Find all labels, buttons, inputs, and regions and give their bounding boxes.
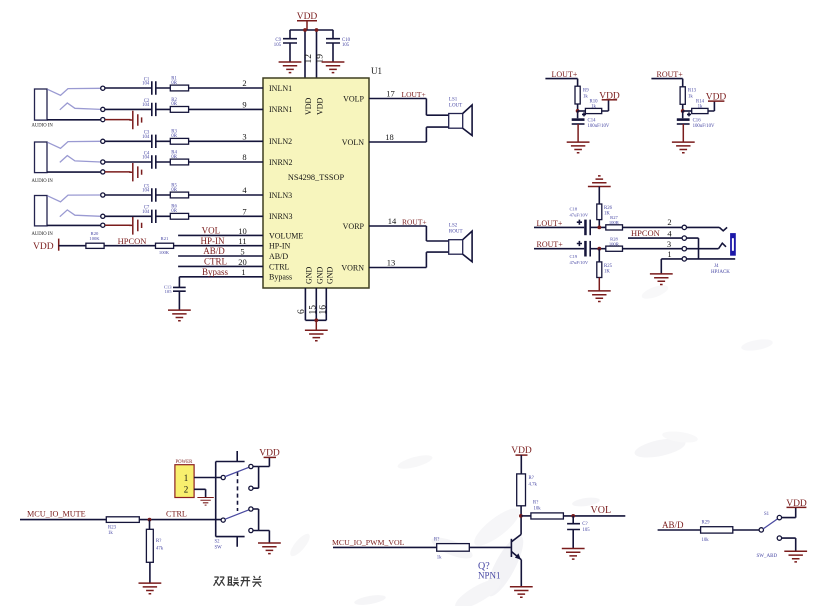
speaker LS2 ROUT [449,224,472,262]
ground (sideways) jack3 [129,216,141,234]
svg-text:12: 12 [304,54,314,64]
ground under C10 [322,62,345,73]
svg-text:1k: 1k [437,556,442,561]
wire pin19 [316,30,318,78]
wire node to R10 [578,110,586,112]
resistor R13 1k [680,87,696,105]
wire GND join [305,319,326,321]
svg-text:R?: R? [434,537,439,542]
wire S1 top to VDD [782,507,796,517]
wire C18 to R27 [590,226,606,228]
svg-text:LS1: LS1 [449,97,458,102]
svg-text:3: 3 [242,131,246,141]
ground under C9 [279,62,302,73]
wire LOUT+ to C18 [534,226,584,228]
wire pin 4 [628,237,682,239]
svg-text:105: 105 [342,43,350,48]
wire R47k to ground [149,562,151,583]
resistor R? 47k [146,520,163,563]
svg-text:104: 104 [142,82,150,87]
wire to ground [315,320,317,330]
svg-text:0R: 0R [171,102,177,107]
svg-text:ROUT+: ROUT+ [657,70,684,79]
node junction collector [519,514,523,518]
resistor R? 10k [531,501,564,519]
svg-text:2: 2 [667,217,671,227]
wire C14 to ground [577,124,579,142]
wire VOL stub to pin 10 [178,234,263,236]
svg-text:0R: 0R [171,134,177,139]
svg-text:VORN: VORN [341,263,364,272]
wire VDD rail [290,29,333,31]
wire R23 to switch [139,519,221,521]
pin circle 4 [682,236,686,240]
wire VORP pin 14 [369,226,449,241]
svg-text:VORP: VORP [343,222,365,231]
ground under R25 [588,291,611,302]
svg-text:0R: 0R [171,81,177,86]
svg-text:AB/D: AB/D [662,520,684,530]
switch S1 contact top [777,515,781,519]
wire ground to R26 [598,187,600,205]
ground at POWER pin2 [197,498,213,506]
switch S2 blade B [225,510,249,519]
svg-text:VOLP: VOLP [343,94,364,103]
wire R1k to base [469,546,510,548]
svg-text:AUDIO IN: AUDIO IN [32,232,54,237]
svg-text:MCU_IO_MUTE: MCU_IO_MUTE [27,509,86,518]
svg-text:AUDIO IN: AUDIO IN [32,124,54,129]
ground under C16 [672,142,695,153]
input line 2: wire, capacitor C2, resistor R2, pin 9 [105,98,263,116]
speaker LS1 LOUT [449,97,472,135]
resistor R29 10k [701,520,733,543]
svg-text:11: 11 [238,236,246,246]
svg-text:100R: 100R [609,220,620,225]
svg-text:10: 10 [238,226,247,236]
wire R10k to VOL [563,515,625,517]
svg-text:HPJACK: HPJACK [711,270,730,275]
svg-text:VDD: VDD [316,97,325,115]
svg-text:R?: R? [529,476,534,481]
svg-text:2: 2 [242,78,246,88]
svg-text:CTRL: CTRL [269,262,290,271]
node junction L [576,109,580,113]
node junction on rail [303,28,307,32]
svg-text:AB/D: AB/D [269,252,288,261]
power port VDD (top) [297,12,318,30]
wire AB/D to R29 [658,529,701,531]
switch S1 blade [763,519,777,529]
svg-text:J4: J4 [714,264,719,269]
svg-text:Bypass: Bypass [202,267,229,277]
svg-text:7: 7 [242,206,246,216]
svg-text:VOLN: VOLN [342,138,364,147]
connector AUDIO IN jack 3 [32,193,105,237]
svg-text:C16: C16 [693,118,702,123]
power port VDD (npn) [511,446,532,456]
svg-text:LOUT+: LOUT+ [552,70,578,79]
power port VDD (R10) [599,91,620,101]
wire GND pin 15 [315,288,317,320]
wire jack3 sleeve to ground [105,224,131,226]
wire AB/D stub to pin 5 [178,255,263,257]
wire R29 to switch S1 [733,529,759,531]
svg-text:1: 1 [184,473,189,483]
connector AUDIO IN jack 1 [32,86,105,129]
svg-text:LOUT+: LOUT+ [402,90,426,99]
svg-text:GND: GND [326,266,335,284]
ground under Q? [510,587,533,598]
ground (sideways) jack1 [129,111,141,129]
svg-text:105: 105 [165,289,173,294]
resistor R? 4.7k [517,474,538,506]
svg-text:MCU_IO_PWM_VOL: MCU_IO_PWM_VOL [332,538,405,547]
resistor R14 1k [692,99,708,113]
resistor R23 1k [106,517,139,536]
pin circle 1 [682,257,686,261]
wire LOUT+ stub [545,79,577,87]
svg-text:C18: C18 [570,207,578,212]
power port VDD (switch) [259,448,280,458]
svg-text:104: 104 [142,135,150,140]
svg-text:4.7k: 4.7k [529,482,538,487]
wire ROUT+ stub [651,79,682,87]
svg-text:104: 104 [142,103,150,108]
ground under U1 [305,330,328,341]
svg-text:U1: U1 [371,66,382,76]
op-amp U1 NS4298_TSSOP body [263,78,369,288]
capacitor C16 100uF/10V [677,111,715,129]
svg-text:INLN2: INLN2 [269,137,292,146]
svg-text:1k: 1k [583,95,588,100]
svg-text:1K: 1K [604,269,610,274]
wire CTRL stub to pin 20 [178,265,263,267]
svg-text:R13: R13 [688,89,697,94]
wire rail B to ground [259,531,270,544]
wire pin2 to tip contact [687,227,728,230]
wire R28 to pin 3 [623,248,683,250]
svg-text:HPCON: HPCON [118,236,147,246]
wire R20 to R21 [104,245,155,247]
wire rail to VDD [259,457,270,466]
capacitor C9 [274,30,297,62]
wire collector vertical [520,506,522,534]
svg-text:R26: R26 [604,206,613,211]
wire Bypass to pin 1 [179,277,263,288]
input line 4: wire, capacitor C4, resistor R4, pin 8 [105,150,263,168]
resistor R9 1k [575,86,589,104]
svg-text:R25: R25 [604,264,613,269]
resistor R? 1k (base) [434,537,469,560]
wire VDD to R20 [59,245,86,247]
svg-text:HP-IN: HP-IN [201,236,225,246]
switch S2 frame [216,451,245,547]
svg-text:INLN3: INLN3 [269,191,292,200]
svg-text:100R: 100R [609,241,620,246]
wire pin1 to sleeve [687,258,736,260]
capacitor C10 [326,30,351,62]
resistor R10 1k [585,99,601,113]
svg-text:VOLUME: VOLUME [269,231,303,240]
svg-text:LOUT+: LOUT+ [537,219,563,228]
svg-text:104: 104 [142,189,150,194]
input line 5: wire, capacitor C5, resistor R5, pin 4 [105,183,263,201]
svg-text:R21: R21 [161,236,169,241]
wire POWER pin2 to ground [194,489,206,497]
ground at switch [258,543,281,554]
svg-text:8: 8 [242,152,246,162]
svg-text:1: 1 [667,249,671,259]
svg-text:R23: R23 [108,525,117,530]
wire pin 1 [661,258,682,260]
power port VDD (R14) [706,93,727,103]
switch S2 contact A2 [249,486,253,490]
resistor R27 100R [606,215,623,230]
switch S2 contact A1 [249,464,253,468]
input line 1: wire, capacitor C1, resistor R1, pin 2 [105,76,263,94]
svg-text:100uF/10V: 100uF/10V [588,124,610,129]
svg-text:100uF/10V: 100uF/10V [693,124,715,129]
svg-text:1k: 1k [108,531,113,536]
wire S1 bottom to ground [782,538,796,551]
svg-text:9: 9 [242,99,246,109]
ground under C? [562,549,585,560]
svg-text:13: 13 [387,258,396,268]
ground (sideways) jack2 [129,163,141,181]
wire pin12 [304,30,306,78]
wire R26 to node [598,220,600,228]
capacitor C14 100uF/10V [572,111,610,129]
svg-text:6: 6 [297,309,307,314]
svg-text:10k: 10k [534,507,542,512]
ground (inverted) above R26 [588,176,611,187]
wire contacts A to rail [253,467,259,489]
wire VOLP pin 17 [369,99,449,116]
svg-text:VDD: VDD [304,97,313,115]
svg-text:100K: 100K [89,236,100,241]
svg-text:10k: 10k [702,538,710,543]
svg-text:100K: 100K [159,250,170,255]
node junction hp R [597,247,601,251]
switch S2 pole A [221,475,225,479]
node GND junction [314,318,318,322]
ground under C13 [168,310,191,321]
wire MCU_IO_PWM_VOL to R1k [333,546,437,548]
svg-text:0R: 0R [171,188,177,193]
svg-text:GND: GND [305,266,314,284]
svg-text:3: 3 [667,239,671,249]
svg-text:105: 105 [274,43,282,48]
svg-text:14: 14 [388,216,397,226]
svg-text:1k: 1k [591,105,596,110]
svg-text:47k: 47k [156,547,164,552]
switch S1 contact bottom [777,536,781,540]
wire C19 to R28 [590,248,606,250]
wire VORN pin 13 [369,252,449,267]
node junction CTRL [148,518,152,522]
svg-text:18: 18 [385,132,394,142]
wire R21 to pin 11 [174,245,263,247]
svg-text:VDD: VDD [33,242,54,252]
svg-text:20: 20 [238,257,247,267]
ground at S1 [784,551,807,562]
switch S1 pole [759,528,763,532]
svg-text:SW: SW [215,545,223,550]
connector AUDIO IN jack 2 [32,139,105,184]
svg-text:2: 2 [184,485,189,495]
svg-text:VOL: VOL [591,505,612,516]
svg-text:4: 4 [667,228,672,238]
svg-text:C?: C? [582,522,587,527]
resistor R26 1K [597,204,613,220]
wire R13 to node [682,104,684,111]
svg-text:R?: R? [156,539,161,544]
connector POWER [175,460,194,497]
svg-text:S2: S2 [215,539,221,544]
svg-text:ROUT: ROUT [449,230,463,235]
svg-text:LS2: LS2 [449,224,458,229]
svg-text:CTRL: CTRL [166,509,187,518]
svg-text:ROUT+: ROUT+ [402,217,427,226]
input line 3: wire, capacitor C3, resistor R3, pin 3 [105,130,263,148]
node junction hp L [597,226,601,230]
svg-text:S1: S1 [764,512,770,517]
resistor R21 100K [156,236,174,255]
wire R10 to VDD [602,100,609,111]
wire pin3 to ring contact [687,243,727,249]
svg-text:104: 104 [142,210,150,215]
svg-text:LOUT: LOUT [449,103,462,108]
svg-text:C19: C19 [570,254,578,259]
switch S2 mechanical link (dashed) [237,472,239,511]
wire pin1 to ground [660,259,662,274]
wire ROUT+ to C19 [534,248,584,250]
svg-text:47uF/10V: 47uF/10V [570,260,589,265]
resistor R25 1K [597,249,613,278]
wire VDD to R4.7k [520,455,522,474]
switch S2 blade A [225,467,249,476]
wire jack2 sleeve to ground [105,171,131,173]
switch S2 pole B [221,518,225,522]
wire R25 to ground [598,278,600,291]
svg-text:15: 15 [308,305,318,315]
svg-text:4: 4 [242,185,247,195]
switch S2 contact B2 [249,528,253,532]
designator S2 SW [215,539,223,550]
svg-text:105: 105 [583,528,591,533]
svg-text:CTRL: CTRL [204,257,227,267]
svg-text:1: 1 [241,267,245,277]
svg-text:1k: 1k [698,105,703,110]
svg-text:R29: R29 [702,520,711,525]
node junction VOL [571,514,575,518]
svg-text:ROUT+: ROUT+ [537,240,564,249]
wire POWER pin1 to switch [194,477,221,479]
svg-text:Bypass: Bypass [269,273,292,282]
svg-text:0R: 0R [171,155,177,160]
power port VDD (abd) [786,499,807,509]
capacitor C18 47uF/10V [570,207,591,236]
svg-text:INRN1: INRN1 [269,105,293,114]
svg-text:AB/D: AB/D [203,246,225,256]
svg-text:5: 5 [240,246,244,256]
wire MCU_IO_MUTE to R23 [20,519,106,521]
svg-text:104: 104 [142,156,150,161]
capacitor C19 47uF/10V [570,241,591,265]
wire VOLN pin 18 [369,127,449,142]
connector J4 HPJACK body [711,233,736,275]
svg-text:17: 17 [386,89,395,99]
wire jack1 sleeve to ground [105,119,131,121]
wire R27 to pin 2 [623,226,683,228]
wire C16 to ground [682,124,684,142]
svg-text:NS4298_TSSOP: NS4298_TSSOP [288,173,345,182]
svg-text:1k: 1k [688,95,693,100]
pin circle 2 [682,225,686,229]
wire pin4 down to pin1 line [687,238,699,259]
ground under R47k [139,583,162,594]
svg-text:INLN1: INLN1 [269,84,292,93]
wire R14 to VDD [708,101,714,111]
wire emitter to ground [520,560,522,587]
svg-text:NPN1: NPN1 [478,570,501,580]
pin circle 3 [682,247,686,251]
svg-text:R?: R? [533,501,538,506]
resistor R28 100R [606,236,623,251]
resistor R20 100K [86,231,104,248]
ground under C14 [567,142,590,153]
ground at pin1 [650,274,673,285]
node junction on rail 2 [315,28,319,32]
switch S2 contact B1 [249,507,253,511]
power port VDD (left) [33,239,59,252]
wire node to R14 [683,110,692,112]
transistor Q? NPN1 [478,534,521,580]
svg-text:SW_ABD: SW_ABD [757,554,778,559]
wire contacts B to rail [253,509,259,531]
capacitor C? 105 [567,516,590,549]
node junction R [681,109,685,113]
svg-text:INRN3: INRN3 [269,212,293,221]
wire GND pin 16 [325,288,327,320]
wire node to R10k [521,515,531,517]
svg-text:47uF/10V: 47uF/10V [570,213,589,218]
svg-text:HP-IN: HP-IN [269,242,291,251]
wire GND pin 6 [304,288,306,320]
text dual switch (Chinese) [214,576,262,587]
svg-text:C14: C14 [588,118,597,123]
svg-text:VOL: VOL [202,226,221,236]
svg-text:AUDIO IN: AUDIO IN [32,179,54,184]
wire R9 to node [577,104,579,111]
svg-text:16: 16 [318,305,328,315]
svg-text:HPCON: HPCON [631,228,660,238]
svg-text:INRN2: INRN2 [269,158,293,167]
input line 6: wire, capacitor C7, resistor R6, pin 7 [105,205,263,223]
svg-text:R9: R9 [583,89,589,94]
svg-text:0R: 0R [171,209,177,214]
svg-text:GND: GND [316,266,325,284]
capacitor C13 105 [164,284,186,310]
